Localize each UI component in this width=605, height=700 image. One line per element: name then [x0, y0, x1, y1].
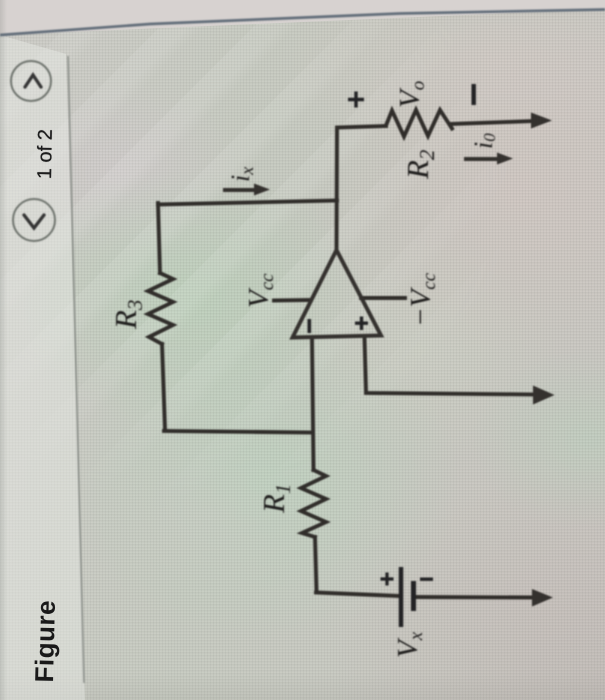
current arrow i_x — [223, 188, 257, 192]
battery Vx negative plate — [411, 581, 416, 611]
svg-text:Vx: Vx — [392, 631, 427, 658]
label battery plus — [381, 573, 394, 586]
label battery minus — [420, 578, 433, 581]
label Vo plus — [348, 92, 364, 108]
pagination text — [8, 119, 56, 179]
current arrow i_o — [464, 157, 499, 161]
next page chevron — [25, 75, 41, 87]
resistor R1 — [301, 470, 326, 537]
wire output rail to terminal — [452, 121, 534, 124]
svg-text:i0: i0 — [469, 133, 499, 149]
battery Vx positive plate — [399, 567, 404, 627]
wire R1 bottom lead — [315, 537, 317, 591]
wire op-amp output lead — [337, 126, 387, 250]
op-amp U1 — [293, 250, 382, 338]
screen top edge line — [0, 10, 605, 36]
power lead Vcc — [274, 298, 311, 302]
resistor R3 — [148, 273, 173, 344]
wire R3 bottom lead — [162, 344, 165, 429]
Figure heading — [13, 598, 69, 682]
op-amp noninverting marker + — [355, 317, 368, 331]
svg-text:R3: R3 — [108, 300, 147, 330]
wire bottom rail left — [316, 593, 399, 597]
wire R3 to inverting node — [164, 431, 312, 433]
svg-text:R1: R1 — [256, 484, 295, 514]
wire noninverting input lead — [365, 338, 537, 395]
power lead -Vcc — [361, 296, 405, 300]
resistor R2 — [386, 110, 452, 137]
op-amp inverting marker - — [308, 319, 312, 333]
wire R3 top lead — [158, 203, 160, 273]
wire inverting input lead — [312, 338, 314, 470]
svg-text:R2: R2 — [400, 149, 439, 180]
svg-text:Vcc: Vcc — [243, 273, 278, 308]
svg-text:ix: ix — [226, 167, 257, 182]
svg-text:−Vcc: −Vcc — [405, 272, 440, 327]
prev page button circle — [13, 199, 55, 241]
prev page chevron — [24, 215, 44, 228]
next page button circle — [11, 61, 51, 101]
wire bottom rail right — [415, 595, 537, 599]
arrowhead output terminal — [531, 113, 552, 129]
label Vo minus — [472, 84, 476, 105]
wire feedback top rail — [158, 201, 337, 205]
arrowhead bottom rail terminal — [532, 589, 553, 607]
header divider line — [68, 56, 84, 683]
svg-text:Vo: Vo — [394, 81, 429, 108]
arrowhead noninverting terminal — [533, 386, 555, 405]
